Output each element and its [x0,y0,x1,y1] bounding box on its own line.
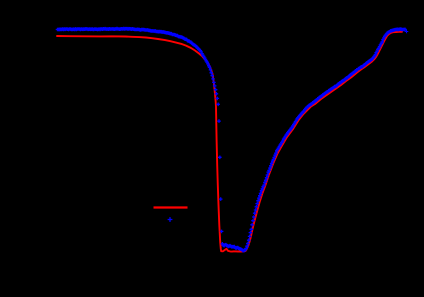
red fit curve [57,32,402,252]
isolated last blue marker [405,30,409,34]
legend blue plus marker [168,217,173,222]
blue data plus-markers curve [56,27,407,253]
legend red line [154,206,188,208]
